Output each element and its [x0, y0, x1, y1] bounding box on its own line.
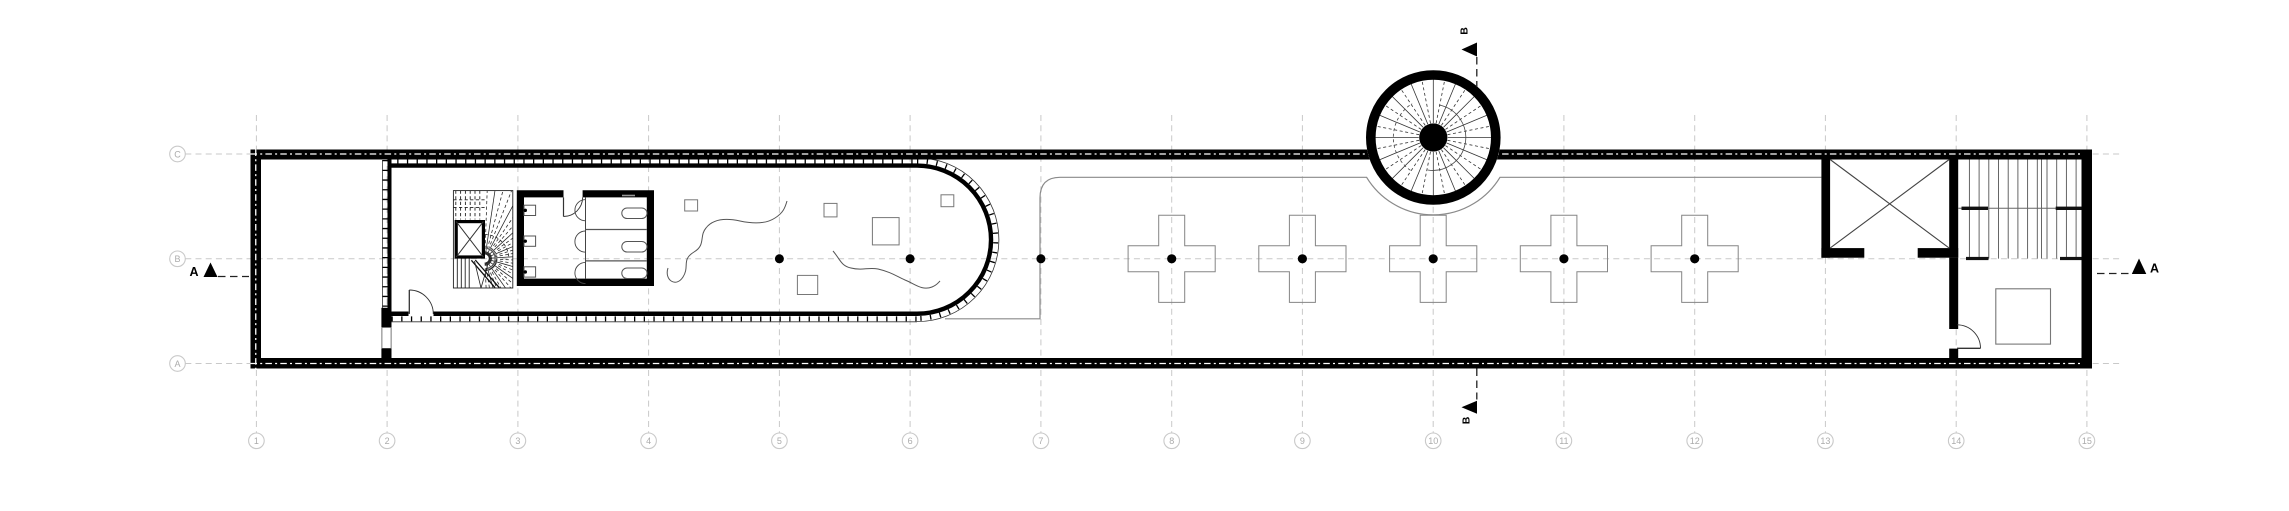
stadium glass wall left vertical — [388, 160, 392, 312]
cross column dot grid 9 — [1298, 254, 1307, 263]
elevator X — [1830, 160, 1949, 249]
svg-text:3: 3 — [515, 436, 520, 446]
cross column dot grid 11 — [1559, 254, 1568, 263]
cross column dot grid 8 — [1167, 254, 1176, 263]
spiral stair newel — [1419, 123, 1447, 151]
spiral stair walk circle — [1428, 105, 1466, 170]
outer wall top — [251, 150, 2093, 160]
grid bubble 5 — [772, 433, 788, 449]
grid bubble C — [170, 146, 186, 162]
stall front line — [585, 197, 587, 278]
right room table square — [1996, 289, 2051, 344]
stall door 1 — [575, 200, 586, 221]
svg-text:C: C — [174, 149, 181, 159]
grid bubble 4 — [641, 433, 657, 449]
toilet 1 — [622, 208, 647, 219]
stair treads lower run — [456, 259, 458, 289]
cross column grid 8 — [1128, 215, 1215, 302]
svg-text:2: 2 — [385, 436, 390, 446]
grid bubble 6 — [902, 433, 918, 449]
cross column dot grid 10 — [1429, 254, 1438, 263]
toilet 2 — [622, 242, 647, 253]
wc room walls — [517, 190, 654, 286]
grid bubble 1 — [249, 433, 265, 449]
urinal 2 — [524, 236, 536, 246]
grid bubble 15 — [2079, 433, 2095, 449]
wc room door — [563, 197, 565, 216]
round column grid 6 — [906, 254, 915, 263]
wall cavity dashes left — [255, 150, 257, 369]
furniture square large — [872, 218, 899, 245]
cross column grid 12 — [1651, 215, 1738, 302]
svg-text:B: B — [1459, 27, 1471, 35]
grid bubble 3 — [510, 433, 526, 449]
svg-text:B: B — [1461, 416, 1473, 424]
cross column grid 11 — [1520, 215, 1607, 302]
furniture square d — [797, 275, 817, 294]
spiral stair outer ring — [1371, 75, 1496, 200]
plant squiggle left — [667, 201, 787, 282]
grid bubble 7 — [1033, 433, 1049, 449]
partition wall below elevator — [1949, 258, 1958, 329]
stair walk lines — [471, 260, 495, 287]
furniture square a — [685, 200, 698, 211]
toilet 3 — [622, 268, 647, 279]
svg-text:11: 11 — [1559, 436, 1568, 446]
grid bubble 11 — [1556, 433, 1572, 449]
section A-A right marker — [2097, 273, 2130, 275]
grid bubble 12 — [1687, 433, 1703, 449]
svg-text:9: 9 — [1300, 436, 1305, 446]
stadium glass wall bottom — [392, 312, 409, 316]
svg-text:12: 12 — [1690, 436, 1700, 446]
wc lintel mark — [622, 195, 635, 197]
grid bubble 8 — [1164, 433, 1180, 449]
urinal 3 — [524, 267, 536, 277]
stadium glass wall end arc — [917, 166, 991, 314]
outer wall left — [251, 150, 262, 369]
svg-text:A: A — [2150, 262, 2159, 276]
wall cavity dashes bottom — [251, 363, 2081, 365]
glass wall opening — [382, 327, 391, 348]
svg-text:7: 7 — [1038, 436, 1043, 446]
glass wall lower stub — [381, 349, 391, 359]
urinal 1 — [524, 205, 536, 215]
svg-text:A: A — [174, 359, 180, 369]
stall partition 1 — [586, 229, 647, 231]
stair winder fan — [485, 174, 488, 255]
stadium door leaf — [408, 290, 410, 314]
svg-text:1: 1 — [254, 436, 259, 446]
outer wall right — [2082, 150, 2093, 369]
section B-B bottom marker — [1476, 369, 1478, 400]
grid bubble 10 — [1425, 433, 1441, 449]
plant squiggle right — [833, 251, 940, 288]
svg-text:B: B — [174, 254, 180, 264]
grid bubble 9 — [1295, 433, 1311, 449]
glass wall base block — [381, 308, 391, 327]
cross column grid 10 — [1390, 215, 1477, 302]
stall door 3 — [575, 262, 586, 283]
elevator room bottom wall segments — [1821, 248, 1864, 258]
svg-text:13: 13 — [1820, 436, 1830, 446]
right stair handrail segments — [1962, 207, 1989, 210]
svg-text:10: 10 — [1428, 436, 1438, 446]
svg-text:14: 14 — [1951, 436, 1961, 446]
stall partition 2 — [586, 260, 647, 262]
walkway edge line — [945, 177, 1821, 318]
right stair mid landing line — [1958, 207, 2081, 209]
elevator shaft small — [456, 222, 483, 257]
round column grid 7 — [1036, 254, 1045, 263]
grid lines vertical 1-15 — [255, 115, 257, 433]
furniture square b — [824, 203, 837, 217]
stall door 2 — [575, 231, 586, 252]
spiral stair disc — [1366, 70, 1501, 205]
right stair treads — [1968, 160, 1970, 259]
round column grid 5 — [775, 254, 784, 263]
main stair boundary — [453, 191, 512, 288]
grid bubble 13 — [1818, 433, 1834, 449]
elevator room right wall — [1949, 160, 1958, 258]
grid lines horizontal C B A — [185, 153, 2123, 155]
grid bubble B — [170, 251, 186, 267]
door leaf right room — [1957, 347, 1981, 349]
grid bubble 2 — [379, 433, 395, 449]
elevator room left wall — [1821, 160, 1830, 258]
stair arcs — [485, 259, 497, 271]
svg-text:6: 6 — [908, 436, 913, 446]
wall cavity dashes top — [251, 153, 2081, 155]
svg-text:5: 5 — [777, 436, 782, 446]
svg-text:4: 4 — [646, 436, 651, 446]
stadium glass wall top — [388, 163, 918, 167]
svg-text:15: 15 — [2082, 436, 2092, 446]
outer wall bottom — [251, 358, 2093, 369]
stair treads upper run — [455, 191, 457, 220]
grid bubble 14 — [1948, 433, 1964, 449]
cross column grid 9 — [1259, 215, 1346, 302]
grid bubble A — [170, 356, 186, 372]
spiral stair treads — [1448, 137, 1492, 139]
svg-text:A: A — [189, 265, 198, 279]
svg-text:8: 8 — [1169, 436, 1174, 446]
cross column dot grid 12 — [1690, 254, 1699, 263]
furniture square c — [941, 195, 954, 207]
door stub — [1949, 349, 1958, 359]
